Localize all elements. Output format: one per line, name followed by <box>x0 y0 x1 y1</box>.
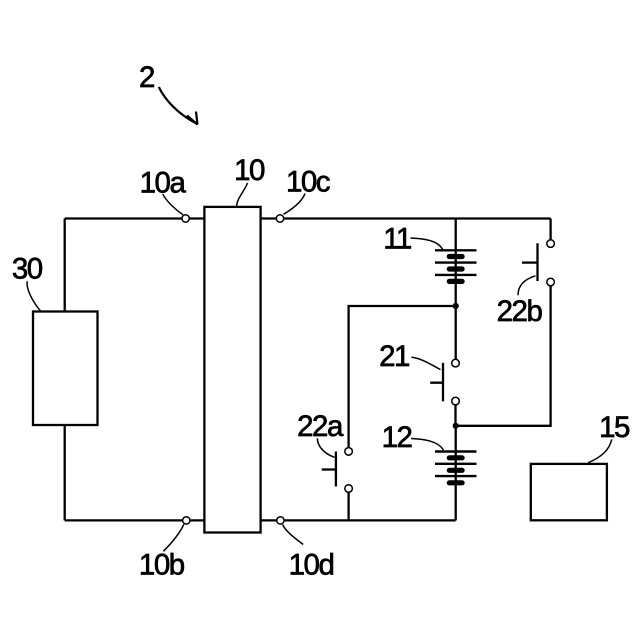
battery 11 <box>435 250 477 284</box>
svg-text:10b: 10b <box>139 549 185 582</box>
terminal 10d <box>277 517 284 524</box>
arrow for label 2 <box>159 87 198 125</box>
wire branch junction B right <box>456 286 551 426</box>
battery 12 <box>435 452 477 486</box>
leader label 12 <box>411 439 444 451</box>
box 30 <box>33 312 98 426</box>
wire bottom horizontal <box>65 519 456 521</box>
box 10 <box>204 207 260 533</box>
svg-text:15: 15 <box>599 411 630 444</box>
leader label 10c <box>284 194 306 215</box>
wire top horizontal <box>65 217 551 219</box>
switch 22b <box>522 240 554 286</box>
wire branch junction A left <box>349 306 456 448</box>
leader label 10 <box>237 183 248 207</box>
node junction A <box>453 303 459 309</box>
leader label 30 <box>27 281 40 311</box>
svg-text:10a: 10a <box>140 167 187 200</box>
wire left vertical lower <box>64 425 66 521</box>
svg-text:10: 10 <box>234 154 265 187</box>
svg-text:10c: 10c <box>286 166 330 199</box>
wire switch 21 to junction B <box>454 405 456 426</box>
svg-text:10d: 10d <box>289 549 334 582</box>
wire switch 22b to top <box>549 219 551 240</box>
svg-text:2: 2 <box>139 61 154 94</box>
leader label 22b <box>518 276 536 295</box>
terminal 10b <box>183 517 190 524</box>
switch 22a <box>322 448 353 493</box>
leader label 21 <box>411 357 440 369</box>
wire battery column lower <box>455 426 457 521</box>
svg-text:12: 12 <box>382 421 412 454</box>
leader label 22a <box>317 438 334 457</box>
leader label 10a <box>163 194 183 215</box>
svg-text:22b: 22b <box>497 295 543 328</box>
wire junction A to switch 21 <box>455 306 457 359</box>
svg-text:21: 21 <box>379 340 409 373</box>
wire switch 22a to bottom <box>347 492 349 520</box>
leader label 15 <box>588 439 612 462</box>
leader label 10d <box>283 525 304 545</box>
terminal 10a <box>182 215 189 222</box>
leader label 10b <box>163 524 183 551</box>
node junction B <box>453 423 459 429</box>
box 15 <box>531 464 607 520</box>
svg-text:11: 11 <box>383 223 411 256</box>
leader label 11 <box>411 238 443 250</box>
wire left vertical <box>64 219 66 313</box>
wire battery column upper <box>455 219 457 307</box>
switch 21 <box>430 359 459 405</box>
svg-text:22a: 22a <box>297 410 344 443</box>
terminal 10c <box>276 215 283 222</box>
svg-text:30: 30 <box>12 252 43 285</box>
